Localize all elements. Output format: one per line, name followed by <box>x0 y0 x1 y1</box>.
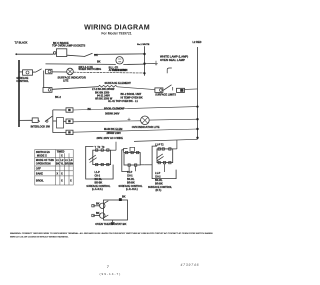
svg-text:TIMED: TIMED <box>57 151 65 154</box>
svg-text:L1-P: L1-P <box>95 171 101 174</box>
svg-text:L1-P T2: L1-P T2 <box>155 143 164 146</box>
svg-text:Y T2 T3: Y T2 T3 <box>95 146 106 149</box>
svg-text:L2-P: L2-P <box>127 171 133 174</box>
svg-text:BR: BR <box>65 163 69 166</box>
svg-text:BROIL: BROIL <box>36 180 44 183</box>
svg-text:CONTROL: CONTROL <box>16 80 29 83</box>
svg-text:BK: BK <box>97 60 101 63</box>
svg-text:CH-2: CH-2 <box>95 175 101 178</box>
svg-text:TOP OVEN LAMP SOCKETS: TOP OVEN LAMP SOCKETS <box>52 45 86 48</box>
svg-text:BN: BN <box>70 163 74 166</box>
svg-text:3650W 240V: 3650W 240V <box>105 112 120 115</box>
svg-text:BK-BL: BK-BL <box>155 179 163 182</box>
svg-text:208V. 240V AC 3 WIRE: 208V. 240V AC 3 WIRE <box>97 137 124 140</box>
svg-text:No.1 WHITE: No.1 WHITE <box>137 44 150 46</box>
svg-text:OVEN THERMOSTAT BK: OVEN THERMOSTAT BK <box>95 222 126 226</box>
svg-text:BK: BK <box>88 108 92 111</box>
svg-text:MODE OF THIS: MODE OF THIS <box>36 159 54 162</box>
svg-text:BK: BK <box>94 54 98 57</box>
svg-text:(L.R.-R.R.): (L.R.-R.R.) <box>126 188 138 191</box>
svg-text:CH-1: CH-1 <box>127 175 133 178</box>
svg-text:2850W 240V: 2850W 240V <box>107 132 122 135</box>
svg-text:OVEN SEAL LAMP: OVEN SEAL LAMP <box>160 58 185 62</box>
svg-text:BAKE: BAKE <box>36 173 43 176</box>
svg-text:For Model 7939721: For Model 7939721 <box>101 32 131 36</box>
svg-text:YL: YL <box>61 163 65 166</box>
svg-text:OFF: OFF <box>36 168 41 171</box>
svg-text:MAIN BK ELEM: MAIN BK ELEM <box>104 128 122 131</box>
svg-text:OPERATION: OPERATION <box>36 163 51 166</box>
svg-text:SURFACE ELEMENT: SURFACE ELEMENT <box>105 81 132 85</box>
svg-text:BROIL ELEMENT: BROIL ELEMENT <box>104 107 125 110</box>
svg-text:(99-14-7): (99-14-7) <box>100 272 122 276</box>
svg-text:SURFACE INDICATOR: SURFACE INDICATOR <box>58 75 86 79</box>
svg-text:T.F BLACK: T.F BLACK <box>15 42 28 45</box>
svg-text:(L.F.-R.F.): (L.F.-R.F.) <box>92 188 103 191</box>
svg-text:L2 RED: L2 RED <box>193 41 202 44</box>
svg-text:LITE: LITE <box>63 79 69 82</box>
svg-text:4739746: 4739746 <box>181 263 200 267</box>
svg-text:BK: BK <box>122 195 126 198</box>
svg-text:WARNING: CONNECT GROUND WIRE T: WARNING: CONNECT GROUND WIRE TO GROUNDIN… <box>10 232 213 235</box>
svg-text:BK: BK <box>56 163 60 166</box>
svg-text:BK-2: BK-2 <box>55 96 61 99</box>
svg-text:INTERLOCK SW: INTERLOCK SW <box>31 125 51 128</box>
svg-text:BK-BL: BK-BL <box>127 178 135 181</box>
svg-text:BK: BK <box>96 212 100 215</box>
svg-text:OVN INDICATOR LITE: OVN INDICATOR LITE <box>132 125 160 129</box>
svg-text:OVEN LAMP: OVEN LAMP <box>112 69 127 72</box>
svg-text:BK-BL: BK-BL <box>95 178 103 181</box>
svg-text:WIRE AT COLOR CODING IN WHOLE: WIRE AT COLOR CODING IN WHOLE WIRING HAR… <box>10 236 69 239</box>
svg-text:(R.T.): (R.T.) <box>156 189 162 192</box>
svg-text:WHEN SWITCHING: WHEN SWITCHING <box>79 68 102 71</box>
svg-text:L1-P: L1-P <box>155 172 161 175</box>
svg-text:AL-41 TOP OVEN BK · L1: AL-41 TOP OVEN BK · L1 <box>108 100 139 103</box>
svg-text:BK: BK <box>96 203 100 206</box>
svg-text:SURFACE LIMITS: SURFACE LIMITS <box>155 93 176 96</box>
svg-text:CH-2: CH-2 <box>155 175 161 178</box>
svg-text:WIRING DIAGRAM: WIRING DIAGRAM <box>84 23 150 31</box>
svg-text:MODE X: MODE X <box>37 154 47 157</box>
